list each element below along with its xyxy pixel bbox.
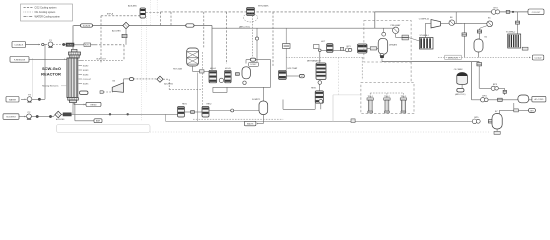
svg-text:COMPR-02: COMPR-02: [419, 19, 430, 21]
svg-text:W-SC: W-SC: [85, 45, 90, 47]
svg-text:(AIR-COOL): (AIR-COOL): [455, 93, 466, 96]
svg-text:P-RESIDUE: P-RESIDUE: [14, 60, 26, 62]
svg-text:DEWAT3: DEWAT3: [389, 44, 398, 47]
svg-text:AC-COND: AC-COND: [534, 98, 543, 101]
svg-text:METHANATOR: METHANATOR: [307, 60, 321, 63]
svg-text:HEX2: HEX2: [207, 104, 212, 106]
svg-text:SOMRT1: SOMRT1: [252, 99, 261, 101]
svg-text:WATER: WATER: [9, 98, 17, 101]
svg-text:PRE-HEAT: PRE-HEAT: [391, 24, 402, 27]
svg-text:RESID: RESID: [90, 104, 97, 106]
svg-text:HEX1: HEX1: [311, 88, 317, 90]
svg-text:SCW5: SCW5: [83, 83, 88, 85]
svg-text:SCW3: SCW3: [83, 70, 88, 72]
svg-text:ST-MEA-1: ST-MEA-1: [420, 34, 430, 37]
svg-text:ALK-RES2: ALK-RES2: [164, 82, 173, 85]
svg-text:WATER Cooling system: WATER Cooling system: [35, 15, 60, 18]
svg-text:ALK-RES: ALK-RES: [112, 30, 121, 33]
svg-text:SCW4: SCW4: [83, 74, 88, 76]
svg-text:WTR-TANK: WTR-TANK: [258, 5, 269, 8]
svg-text:ST-MEA-2: ST-MEA-2: [506, 31, 516, 34]
svg-text:OIL Cooling system: OIL Cooling system: [35, 11, 56, 14]
svg-text:B7O: B7O: [494, 7, 499, 9]
svg-text:ADS-BED: ADS-BED: [128, 5, 137, 8]
svg-text:SCW1: SCW1: [67, 45, 72, 47]
svg-text:SOLVENT: SOLVENT: [6, 117, 16, 119]
svg-text:H2: H2: [301, 76, 303, 78]
svg-text:Cond-02: Cond-02: [534, 58, 541, 60]
svg-text:(AIR-COOL): (AIR-COOL): [239, 25, 250, 28]
svg-text:HO-05: HO-05: [225, 68, 232, 70]
svg-text:REACTOR: REACTOR: [41, 71, 61, 76]
svg-text:HEX1: HEX1: [182, 104, 187, 106]
svg-text:ASH: ASH: [96, 120, 101, 123]
svg-text:OIL TANK: OIL TANK: [454, 68, 464, 71]
svg-text:SCW2: SCW2: [83, 65, 88, 67]
svg-text:BLKT-OUT: BLKT-OUT: [97, 59, 107, 61]
svg-text:H2S TRAP: H2S TRAP: [288, 67, 298, 70]
svg-text:BYP-A: BYP-A: [107, 13, 114, 16]
svg-text:HO-04: HO-04: [210, 68, 217, 70]
svg-text:SCW-RE: SCW-RE: [83, 25, 91, 27]
svg-text:DOM-T: DOM-T: [250, 64, 257, 66]
svg-text:CO2-OUT: CO2-OUT: [532, 12, 541, 14]
svg-text:HOT-GAS: HOT-GAS: [173, 68, 183, 71]
svg-text:C-BLACK: C-BLACK: [14, 44, 24, 47]
svg-text:AUX-RES: AUX-RES: [56, 118, 65, 121]
svg-text:SALES: SALES: [247, 123, 254, 126]
svg-text:Heating Elements: Heating Elements: [42, 85, 58, 88]
svg-text:CO2-LGT: CO2-LGT: [83, 79, 92, 81]
svg-text:CO2 Cooling system: CO2 Cooling system: [35, 7, 57, 10]
